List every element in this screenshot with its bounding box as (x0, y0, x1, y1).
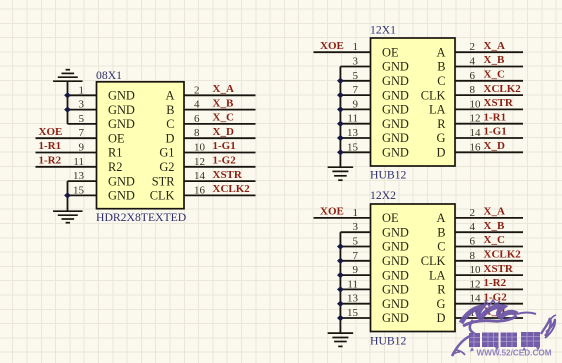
net label 1-R2 (39, 155, 62, 167)
svg-text:GND: GND (382, 60, 409, 74)
wire pin 15 of U1 (08X1) (68, 194, 97, 196)
pin number 1 (353, 207, 359, 219)
net label 1-G1 (484, 126, 507, 138)
wire vertical GND bus bottom of U1 (67, 181, 69, 211)
pin number 8 (194, 127, 200, 139)
pin name A (pin 2) (166, 89, 175, 103)
svg-text:X_B: X_B (484, 54, 505, 66)
pin number 6 (470, 70, 476, 82)
svg-text:11: 11 (73, 156, 84, 168)
pin number 6 (470, 236, 476, 248)
svg-text:9: 9 (353, 98, 359, 110)
svg-text:WWW.52/CED.COM: WWW.52/CED.COM (477, 349, 552, 358)
pin name LA (pin 10) (429, 268, 446, 282)
svg-text:4: 4 (194, 99, 200, 111)
svg-text:GND: GND (382, 88, 409, 102)
svg-text:10: 10 (194, 142, 206, 154)
svg-text:1: 1 (353, 207, 359, 219)
junction pin15/GND bus (64, 192, 71, 198)
wire pin 13 of U1 (08X1) (68, 180, 97, 182)
svg-text:D: D (437, 146, 446, 160)
wire pin 14 of U3 (12X2) (455, 303, 523, 305)
net label X_B (213, 97, 234, 109)
designator 12X2 (370, 189, 396, 202)
wire pin 16 of U3 (12X2) (455, 317, 523, 319)
wire vertical GND bus of U2 (339, 67, 341, 168)
svg-text:11: 11 (347, 278, 358, 290)
svg-text:OE: OE (382, 45, 399, 59)
net label X_C (484, 234, 505, 246)
pin name CLK (pin 8) (421, 254, 446, 268)
wire pin 8 of U1 (08X1) (184, 137, 256, 139)
wire pin 15 of U3 (12X2) (340, 317, 370, 319)
pin name GND (pin 3) (382, 225, 409, 239)
net label 1-G1 (213, 140, 236, 152)
svg-text:1-G1: 1-G1 (213, 140, 236, 152)
net label 1-G2 (484, 291, 508, 303)
wire vertical GND bus top of U1 (67, 81, 69, 124)
wire pin 13 of U2 (12X1) (340, 137, 370, 139)
wire pin 8 of U2 (12X1) (455, 94, 523, 96)
svg-text:G: G (437, 297, 446, 311)
svg-text:16: 16 (470, 141, 482, 153)
pin name GND (pin 7) (382, 88, 409, 102)
wire pin 7 of U2 (12X1) (340, 94, 370, 96)
svg-text:GND: GND (382, 254, 409, 268)
svg-text:X_B: X_B (213, 97, 234, 109)
svg-text:OE: OE (382, 211, 399, 225)
wire pin 2 of U3 (12X2) (455, 217, 523, 219)
pin number 1 (353, 41, 359, 53)
junction pin 15/GND bus U3 (337, 315, 344, 321)
net label XOE (39, 126, 63, 138)
wire pin 5 of U1 (08X1) (68, 123, 97, 125)
wire pin 6 of U2 (12X1) (455, 80, 523, 82)
pin number 5 (353, 236, 359, 248)
svg-text:GND: GND (382, 240, 409, 254)
pin number 15 (347, 307, 359, 319)
designator 08X1 (96, 69, 122, 82)
pin name GND (pin 7) (382, 254, 409, 268)
wire pin 8 of U3 (12X2) (455, 260, 523, 262)
pin name D (pin 8) (166, 131, 175, 145)
svg-text:G2: G2 (159, 160, 174, 174)
pin number 11 (347, 278, 358, 290)
svg-text:1-R1: 1-R1 (39, 140, 62, 152)
pin number 16 (194, 184, 206, 196)
svg-text:1-G2: 1-G2 (213, 155, 237, 167)
svg-text:GND: GND (382, 103, 409, 117)
svg-text:B: B (437, 225, 445, 239)
net label 1-G2 (213, 155, 237, 167)
wire pin 7 of U3 (12X2) (340, 260, 370, 262)
pin name CLK (pin 8) (421, 88, 446, 102)
svg-text:LA: LA (429, 103, 446, 117)
pin name CLK (pin 16) (150, 189, 175, 203)
designator 12X1 (370, 23, 396, 36)
svg-text:X_C: X_C (213, 112, 234, 124)
net label X_B (484, 220, 505, 232)
net label XOE (320, 206, 344, 218)
pin number 2 (470, 41, 476, 53)
svg-text:5: 5 (353, 236, 359, 248)
net label X_C (213, 112, 234, 124)
svg-text:B: B (437, 60, 445, 74)
pin number 1 (79, 84, 85, 96)
svg-text:14: 14 (470, 127, 482, 139)
pin name STR (pin 14) (152, 174, 175, 188)
pin number 3 (353, 221, 359, 233)
pin name B (pin 4) (437, 60, 445, 74)
junction pin1/GND bus (64, 92, 71, 98)
watermark feather flourish (541, 315, 556, 338)
junction pin 9/GND bus U3 (337, 272, 344, 278)
svg-text:5: 5 (353, 70, 359, 82)
pin number 5 (79, 113, 85, 125)
svg-text:CLK: CLK (421, 254, 446, 268)
svg-text:A: A (437, 45, 446, 59)
pin number 2 (194, 84, 200, 96)
wire pin 14 of U2 (12X1) (455, 137, 523, 139)
pin number 10 (470, 264, 482, 276)
svg-text:X_A: X_A (484, 206, 505, 218)
pin name OE (pin 1) (382, 211, 399, 225)
svg-text:XOE: XOE (39, 126, 63, 138)
svg-text:XCLK2: XCLK2 (213, 183, 251, 195)
svg-text:12X2: 12X2 (370, 189, 396, 202)
pin name R (pin 12) (437, 117, 446, 131)
junction pin 13/GND bus U3 (337, 301, 344, 307)
wire pin 15 of U2 (12X1) (340, 151, 370, 153)
pin number 9 (79, 142, 85, 154)
svg-text:1: 1 (353, 41, 359, 53)
svg-text:4: 4 (470, 56, 476, 68)
wire pin 10 of U3 (12X2) (455, 274, 523, 276)
pin name G (pin 14) (437, 131, 446, 145)
svg-text:08X1: 08X1 (96, 69, 122, 82)
svg-text:GND: GND (108, 103, 135, 117)
svg-text:HUB12: HUB12 (370, 169, 407, 182)
svg-text:XOE: XOE (320, 206, 344, 218)
pin number 15 (73, 184, 85, 196)
pin number 14 (470, 293, 482, 305)
svg-text:15: 15 (347, 141, 359, 153)
net label X_B (484, 54, 505, 66)
svg-text:3: 3 (79, 99, 85, 111)
pin number 5 (353, 70, 359, 82)
pin name GND (pin 11) (382, 117, 409, 131)
svg-text:GND: GND (382, 225, 409, 239)
svg-text:2: 2 (194, 84, 200, 96)
pin number 7 (79, 127, 85, 139)
wire pin 5 of U2 (12X1) (340, 80, 370, 82)
svg-text:16: 16 (194, 184, 206, 196)
pin number 16 (470, 141, 482, 153)
svg-text:12: 12 (470, 278, 481, 290)
junction pin3/GND bus (64, 106, 71, 112)
net label 1-R2 (484, 277, 507, 289)
pin number 15 (347, 141, 359, 153)
pin number 3 (79, 99, 85, 111)
net label X_D (213, 126, 234, 138)
pin number 16 (470, 307, 482, 319)
pin name D (pin 16) (437, 146, 446, 160)
svg-text:XCLK2: XCLK2 (484, 83, 522, 95)
wire pin 12 of U3 (12X2) (455, 288, 523, 290)
svg-text:15: 15 (347, 307, 359, 319)
svg-text:XSTR: XSTR (484, 97, 514, 109)
svg-text:A: A (166, 89, 175, 103)
pin name A (pin 2) (437, 211, 446, 225)
pin number 10 (470, 98, 482, 110)
pin number 14 (470, 127, 482, 139)
pin name GND (pin 15) (382, 311, 409, 325)
net label XCLK2 (484, 249, 522, 261)
pin name OE (pin 1) (382, 45, 399, 59)
watermark url text (477, 349, 552, 358)
svg-text:GND: GND (382, 311, 409, 325)
pin number 12 (470, 278, 481, 290)
pin name GND (pin 9) (382, 268, 409, 282)
svg-text:14: 14 (194, 170, 206, 182)
net label XSTR (484, 97, 514, 109)
pin name GND (pin 13) (108, 174, 135, 188)
wire pin 16 of U2 (12X1) (455, 151, 523, 153)
pin number 9 (353, 98, 359, 110)
svg-text:12: 12 (470, 113, 481, 125)
wire pin 7 of U1 (08X1) (36, 137, 97, 139)
watermark left sweep (452, 336, 470, 356)
pin name B (pin 4) (437, 225, 445, 239)
junction pin 7/GND bus U2 (337, 92, 344, 98)
pin number 9 (353, 264, 359, 276)
svg-text:GND: GND (382, 297, 409, 311)
pin name G1 (pin 10) (159, 146, 174, 160)
svg-text:R1: R1 (108, 146, 122, 160)
pin number 13 (73, 170, 85, 182)
svg-text:X_A: X_A (484, 40, 505, 52)
svg-text:CLK: CLK (421, 88, 446, 102)
svg-text:8: 8 (470, 84, 476, 96)
svg-text:3: 3 (353, 56, 359, 68)
pin number 11 (73, 156, 84, 168)
svg-text:D: D (437, 311, 446, 325)
pin number 14 (194, 170, 206, 182)
pin name A (pin 2) (437, 45, 446, 59)
svg-text:GND: GND (108, 89, 135, 103)
wire pin 4 of U1 (08X1) (184, 109, 256, 111)
svg-text:6: 6 (470, 70, 476, 82)
net label XSTR (484, 263, 514, 275)
pin number 7 (353, 84, 359, 96)
svg-text:R2: R2 (108, 160, 122, 174)
wire pin 14 of U1 (08X1) (184, 180, 256, 182)
wire pin 11 of U2 (12X1) (340, 123, 370, 125)
svg-text:5: 5 (79, 113, 85, 125)
junction pin 9/GND bus U2 (337, 106, 344, 112)
net label X_D (484, 306, 505, 318)
wire vertical GND bus of U3 (339, 232, 341, 333)
svg-text:1-G1: 1-G1 (484, 126, 507, 138)
wire pin 6 of U3 (12X2) (455, 246, 523, 248)
wire pin 4 of U2 (12X1) (455, 66, 523, 68)
svg-text:2: 2 (470, 41, 476, 53)
svg-text:10: 10 (470, 264, 482, 276)
net label 1-R1 (484, 111, 507, 123)
wire pin 3 of U2 (12X1) (340, 66, 370, 68)
wire pin 9 of U2 (12X1) (340, 108, 370, 110)
pin number 13 (347, 127, 359, 139)
footprint label HUB12 (370, 335, 407, 348)
svg-text:GND: GND (382, 74, 409, 88)
svg-text:14: 14 (470, 293, 482, 305)
pin name C (pin 6) (437, 74, 445, 88)
svg-text:GND: GND (108, 189, 135, 203)
net label XSTR (213, 169, 243, 181)
svg-text:8: 8 (194, 127, 200, 139)
svg-text:R: R (437, 283, 446, 297)
svg-text:13: 13 (347, 293, 359, 305)
pin name GND (pin 13) (382, 297, 409, 311)
IC U3 (12X2) box (371, 204, 456, 332)
net label XCLK2 (484, 83, 522, 95)
svg-text:G1: G1 (159, 146, 174, 160)
svg-text:X_D: X_D (213, 126, 234, 138)
footprint label HDR2X8TEXTED (96, 211, 186, 224)
svg-text:C: C (437, 74, 445, 88)
net label X_A (484, 40, 505, 52)
IC U1 (08X1) box (97, 82, 185, 209)
svg-text:HDR2X8TEXTED: HDR2X8TEXTED (96, 211, 186, 224)
svg-text:1-R2: 1-R2 (39, 155, 62, 167)
pin number 7 (353, 250, 359, 262)
svg-text:6: 6 (194, 113, 200, 125)
pin number 11 (347, 113, 358, 125)
pin name GND (pin 9) (382, 103, 409, 117)
junction pin 5/GND bus U2 (337, 78, 344, 84)
junction pin 11/GND bus U2 (337, 121, 344, 127)
svg-text:9: 9 (353, 264, 359, 276)
pin number 8 (470, 84, 476, 96)
junction pin 13/GND bus U2 (337, 135, 344, 141)
ground (bottom of U1) (53, 211, 83, 223)
svg-text:2: 2 (470, 207, 476, 219)
wire pin 3 of U1 (08X1) (68, 109, 97, 111)
pin name R1 (pin 9) (108, 146, 122, 160)
wire pin 10 of U1 (08X1) (184, 152, 256, 154)
pin number 8 (470, 250, 476, 262)
junction pin 15/GND bus U2 (337, 149, 344, 155)
svg-text:GND: GND (108, 117, 135, 131)
net label 1-R1 (39, 140, 62, 152)
svg-text:GND: GND (382, 283, 409, 297)
junction pin 5/GND bus U3 (337, 243, 344, 249)
svg-text:R: R (437, 117, 446, 131)
wire pin 2 of U1 (08X1) (184, 94, 256, 96)
wire pin 5 of U3 (12X2) (340, 246, 370, 248)
wire pin 12 of U2 (12X1) (455, 123, 523, 125)
net label XOE (320, 40, 344, 52)
svg-text:XCLK2: XCLK2 (484, 249, 522, 261)
svg-text:X_A: X_A (213, 83, 234, 95)
pin name G (pin 14) (437, 297, 446, 311)
svg-text:GND: GND (382, 268, 409, 282)
net label X_A (484, 206, 505, 218)
watermark dragon logo (461, 300, 536, 334)
pin number 6 (194, 113, 200, 125)
wire pin 11 of U1 (08X1) (36, 166, 97, 168)
pin name G2 (pin 12) (159, 160, 174, 174)
pin number 4 (194, 99, 200, 111)
svg-text:9: 9 (79, 142, 85, 154)
svg-text:GND: GND (382, 146, 409, 160)
pin number 10 (194, 142, 206, 154)
svg-text:LA: LA (429, 268, 446, 282)
pin name LA (pin 10) (429, 103, 446, 117)
pin name GND (pin 3) (382, 60, 409, 74)
pin name GND (pin 1) (108, 89, 135, 103)
svg-text:4: 4 (470, 221, 476, 233)
net label X_D (484, 140, 505, 152)
pin name GND (pin 15) (382, 146, 409, 160)
pin name GND (pin 5) (108, 117, 135, 131)
svg-text:GND: GND (382, 117, 409, 131)
junction pin 7/GND bus U3 (337, 258, 344, 264)
svg-text:X_B: X_B (484, 220, 505, 232)
svg-text:7: 7 (353, 84, 359, 96)
junction pin 11/GND bus U3 (337, 286, 344, 292)
pin name D (pin 16) (437, 311, 446, 325)
wire pin 10 of U2 (12X1) (455, 108, 523, 110)
wire pin 1 of U3 (12X2) (314, 217, 371, 219)
svg-text:X_C: X_C (484, 69, 505, 81)
wire pin 4 of U3 (12X2) (455, 231, 523, 233)
pin name C (pin 6) (437, 240, 445, 254)
svg-text:6: 6 (470, 236, 476, 248)
svg-text:GND: GND (382, 131, 409, 145)
wire pin 1 of U2 (12X1) (314, 51, 371, 53)
wire pin 13 of U3 (12X2) (340, 303, 370, 305)
svg-text:1-R2: 1-R2 (484, 277, 507, 289)
watermark characters (469, 332, 540, 352)
svg-text:XSTR: XSTR (484, 263, 514, 275)
pin number 13 (347, 293, 359, 305)
ground (U2) (328, 167, 354, 180)
wire pin 3 of U3 (12X2) (340, 231, 370, 233)
pin number 12 (194, 156, 205, 168)
svg-text:X_C: X_C (484, 234, 505, 246)
svg-text:13: 13 (347, 127, 359, 139)
svg-text:11: 11 (347, 113, 358, 125)
pin name GND (pin 3) (108, 103, 135, 117)
wire pin 2 of U2 (12X1) (455, 51, 523, 53)
IC U2 (12X1) box (371, 38, 456, 166)
pin name GND (pin 13) (382, 131, 409, 145)
svg-text:XOE: XOE (320, 40, 344, 52)
pin number 2 (470, 207, 476, 219)
pin name GND (pin 11) (382, 283, 409, 297)
wire pin 11 of U3 (12X2) (340, 288, 370, 290)
svg-text:OE: OE (108, 131, 125, 145)
pin name GND (pin 15) (108, 189, 135, 203)
svg-text:X_D: X_D (484, 140, 505, 152)
svg-text:C: C (437, 240, 445, 254)
svg-text:A: A (437, 211, 446, 225)
svg-text:13: 13 (73, 170, 85, 182)
pin name GND (pin 5) (382, 74, 409, 88)
svg-text:15: 15 (73, 184, 85, 196)
net label XCLK2 (213, 183, 251, 195)
